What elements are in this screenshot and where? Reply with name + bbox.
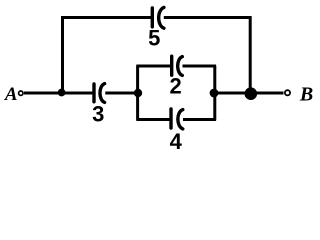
svg-text:5: 5 bbox=[148, 26, 160, 51]
svg-text:2: 2 bbox=[169, 73, 181, 98]
svg-text:3: 3 bbox=[92, 102, 104, 127]
svg-text:4: 4 bbox=[170, 129, 183, 154]
svg-text:B: B bbox=[299, 83, 313, 105]
svg-text:A: A bbox=[4, 84, 18, 105]
